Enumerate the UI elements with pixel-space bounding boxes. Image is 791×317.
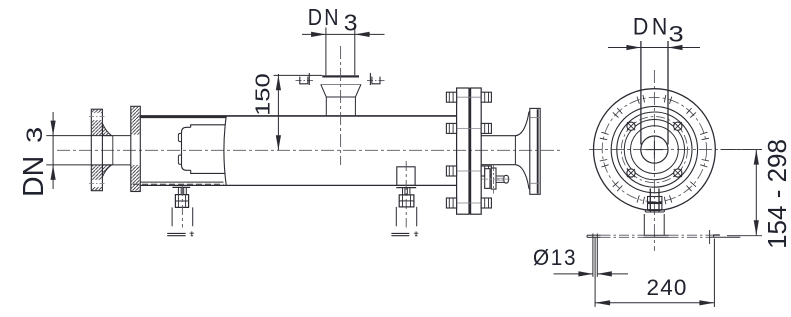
left flange plate (hatched section) <box>91 109 102 191</box>
left flange bolt hole centerline bottom <box>89 182 105 184</box>
support leg 2 pad box <box>397 167 415 186</box>
support leg 2 tube <box>396 207 416 226</box>
dimension 154-298: top extension line <box>721 149 763 151</box>
dimension DN3 end view: right arrow <box>668 45 683 50</box>
drain valve pipe <box>496 176 504 182</box>
end view center cross <box>646 149 664 151</box>
top nozzle right bolt <box>367 73 385 85</box>
vessel shell bottom edge <box>140 184 457 186</box>
internal bundle rounded cap <box>182 127 191 170</box>
left nozzle weld seam <box>112 136 114 165</box>
dimension Ø13: dimension line left part <box>554 273 593 275</box>
dimension Ø13: left arrow <box>578 271 593 276</box>
end flange bolt circle (dash-dot) <box>602 97 706 201</box>
dimension 240: dimension line <box>595 302 714 304</box>
left nozzle pipe top line with DN3 extension <box>46 135 131 137</box>
outlet flare bottom profile <box>515 165 529 190</box>
baseplate bottom line <box>587 236 740 238</box>
svg-text:Ø13: Ø13 <box>533 246 577 271</box>
small flange bolt upper-left <box>627 122 635 130</box>
support leg 2 centerline <box>405 161 407 228</box>
svg-text:154 - 298: 154 - 298 <box>762 139 791 249</box>
small flange bolt lower-right <box>674 169 682 177</box>
left flange bolt hole centerline top <box>89 116 105 118</box>
nozzle bore circle <box>641 136 668 163</box>
outlet end flange bolt hole lines <box>530 117 540 119</box>
vessel shell top edge liner thick segment <box>140 116 226 119</box>
dimension DN3 end view: dimension line <box>608 47 700 49</box>
vessel shell top edge <box>140 115 457 117</box>
end view drain stack studs <box>649 189 651 212</box>
liner hidden dashed line <box>133 183 224 185</box>
dimension DN3 left: dimension line <box>52 112 54 189</box>
drain valve body <box>485 169 490 189</box>
baseplate right step <box>714 235 720 237</box>
support leg 2 threaded stud <box>403 188 410 195</box>
end view drain stack nut lower <box>648 204 662 210</box>
drain valve cap <box>504 175 509 183</box>
support leg 1 tube <box>172 207 193 226</box>
end view drain stack thick joint <box>648 202 662 204</box>
dimension DN3 left: label <box>18 127 50 197</box>
end flange outer rim circle <box>594 89 716 211</box>
dimension 154-298: dimension line <box>755 150 757 236</box>
dimension DN3 top: right arrow <box>355 32 370 37</box>
support leg 1 centerline <box>181 186 183 228</box>
dimension DN3 top: label <box>308 3 358 36</box>
support leg 1 foot adjust mark <box>190 231 194 236</box>
outlet pipe weld seam <box>514 136 516 165</box>
top nozzle left bolt <box>296 73 314 85</box>
support leg 1 bracket bar <box>172 186 190 188</box>
anchor hole Ø13 edge lines <box>592 234 594 277</box>
svg-text:3: 3 <box>669 23 684 47</box>
outlet pipe top line <box>481 135 515 137</box>
dimension 150: top arrow <box>276 75 281 90</box>
top nozzle flange lower face (thin) <box>321 84 362 86</box>
top nozzle pipe stub <box>325 28 327 76</box>
drain valve axis <box>482 178 511 180</box>
main flange pair joint line (thick) <box>469 88 471 214</box>
end view vertical centerline <box>653 70 655 251</box>
svg-text:DN: DN <box>308 3 341 30</box>
support leg 1 foot plate <box>167 233 185 235</box>
dimension DN3 top: dimension line <box>302 33 385 35</box>
end view nozzle projection lines <box>640 41 642 145</box>
small flange bolt lower-left <box>627 169 635 177</box>
main flange bolt row 1 <box>446 92 491 102</box>
end view drain stack nut upper <box>648 197 662 203</box>
dimension DN3 left: top arrow <box>51 121 56 136</box>
dimension 150: label <box>251 73 274 116</box>
svg-text:150: 150 <box>251 73 274 116</box>
raised face circle <box>624 120 684 180</box>
dimension 150: extension line at flange face <box>274 74 323 76</box>
main flange pair right plate <box>471 88 482 214</box>
support leg 2 bracket bar <box>396 187 416 189</box>
internal bundle tab lower <box>178 155 181 164</box>
rim bolt hole ticks <box>600 95 709 204</box>
baseplate right tick <box>709 230 711 244</box>
svg-text:3: 3 <box>344 10 358 36</box>
top nozzle centerline <box>340 46 342 165</box>
svg-text:240: 240 <box>647 275 688 300</box>
dimension DN3 left: bottom arrow <box>51 165 56 180</box>
dimension 240: right arrow <box>699 300 714 305</box>
dimension 154-298: top arrow <box>754 150 759 165</box>
internal bundle tab upper <box>178 133 181 141</box>
anchor hole center extension line <box>594 237 596 307</box>
top nozzle taper hub <box>321 85 361 98</box>
liner inner bottom line <box>140 181 223 183</box>
dimension 150: dimension line <box>277 74 279 150</box>
dimension DN3 end view: left arrow <box>626 45 641 50</box>
dimension Ø13: right arrow <box>597 271 612 276</box>
top nozzle flange (thick joint line) <box>322 75 359 77</box>
small flange bolt upper-right <box>674 122 682 130</box>
outlet flare top profile <box>515 111 529 136</box>
dimension 154-298: bottom arrow <box>754 220 759 235</box>
support leg 2 foot plate <box>391 233 409 235</box>
small flange OD circle <box>617 112 692 187</box>
dished head tangent curve <box>224 117 226 186</box>
tube sheet (left end plate, hatched) <box>131 106 141 191</box>
outlet end flange face line (thick) <box>537 109 539 193</box>
left flange hub bottom (hatched) <box>102 165 111 177</box>
drain valve flange centerline <box>493 164 495 194</box>
gasket circle <box>631 126 679 174</box>
dimension 150: bottom arrow <box>276 135 281 150</box>
baseplate left end <box>586 235 588 237</box>
internal bundle body <box>191 125 226 174</box>
dimension 240: right extension line <box>713 239 715 308</box>
outlet end flange disc <box>530 108 540 194</box>
support leg 2 foot adjust mark <box>414 231 418 236</box>
reducer bell circle <box>611 106 697 192</box>
support leg 1 adjuster nut <box>175 195 188 208</box>
wire: main horizontal centerline of side view <box>57 149 560 151</box>
support leg 2 adjuster nut <box>399 195 414 207</box>
dimension DN3 end view: label <box>633 13 684 47</box>
drain valve flange <box>491 168 496 189</box>
end view horizontal centerline <box>589 149 762 151</box>
left flange hub top (hatched) <box>102 123 111 135</box>
dimension 154-298: label <box>762 139 791 249</box>
main flange bolt row 4 <box>446 198 491 208</box>
left nozzle pipe bottom line with DN3 extension <box>46 164 131 166</box>
dimension 240: left arrow <box>595 300 610 305</box>
svg-text:DN: DN <box>633 13 671 40</box>
baseplate top line <box>587 234 720 236</box>
outlet pipe bottom line <box>481 164 515 166</box>
svg-text:DN: DN <box>18 156 50 197</box>
end view support leg lines <box>643 214 645 235</box>
end view drain stack flange bar <box>645 210 664 212</box>
dimension DN3 top: left arrow <box>311 32 326 37</box>
main flange bolt row 2 <box>446 123 491 133</box>
svg-text:3: 3 <box>21 127 47 143</box>
dimension Ø13: dimension line right part <box>597 273 628 275</box>
dimension 154-298: bottom extension line <box>727 235 762 237</box>
small flange bolt circle (dash-dot) <box>621 117 687 183</box>
support leg 1 threaded stud <box>178 188 186 195</box>
top nozzle base <box>326 97 355 116</box>
main flange bolt row 3 <box>446 166 491 176</box>
main flange pair left plate <box>457 88 469 214</box>
